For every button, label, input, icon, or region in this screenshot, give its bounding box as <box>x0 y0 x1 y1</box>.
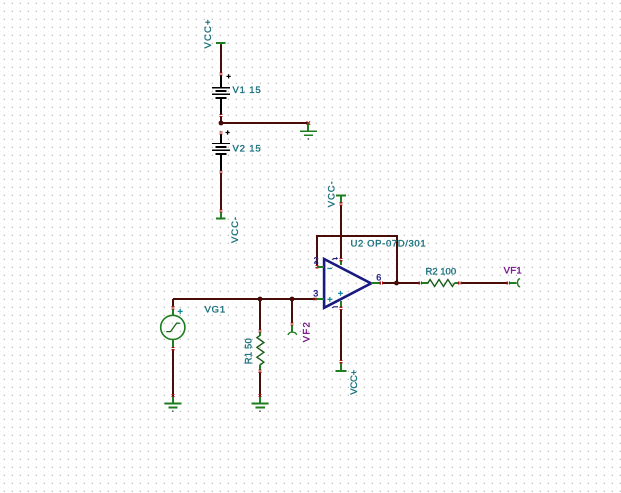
pin 2 stub <box>317 266 324 268</box>
pin ticks <box>315 265 318 268</box>
ground <box>300 124 317 140</box>
svg-text:VCC+: VCC+ <box>203 19 214 49</box>
pin number 2 <box>314 256 319 266</box>
voltage pin VF1 <box>510 279 520 287</box>
svg-text:6: 6 <box>376 273 381 283</box>
label U2 OP-07D/301 <box>351 238 427 249</box>
terminal VCC+ <box>216 42 226 48</box>
pin ticks <box>290 322 293 325</box>
value label V2 15 <box>233 144 262 155</box>
pin ticks <box>458 281 461 284</box>
junction node <box>219 121 224 126</box>
wire <box>397 282 419 284</box>
value label R1 50 <box>244 337 255 364</box>
svg-text:VCC-: VCC- <box>230 216 241 243</box>
battery V1 <box>212 74 231 114</box>
power label VCC- (op-amp top) <box>327 180 338 207</box>
value label VG1 <box>205 305 227 316</box>
pin 6 stub <box>371 282 379 284</box>
pin ticks <box>171 394 174 397</box>
pin ticks <box>419 281 422 284</box>
wire <box>340 310 342 360</box>
value label V1 15 <box>233 85 262 96</box>
net label VF2 <box>302 321 313 342</box>
pin ticks <box>219 131 222 134</box>
power label VCC- <box>230 216 241 243</box>
pin ticks <box>219 114 222 117</box>
terminal VCC- <box>216 213 226 220</box>
pin 4 stub <box>340 301 342 307</box>
pin 7 stub <box>340 261 342 265</box>
ground (R1) <box>252 397 269 412</box>
resistor R1 <box>257 333 264 370</box>
svg-text:U2 OP-07D/301: U2 OP-07D/301 <box>351 238 427 249</box>
pin ticks <box>339 258 342 261</box>
svg-text:VCC+: VCC+ <box>349 369 360 395</box>
battery V2 <box>212 130 230 170</box>
wire <box>462 282 507 284</box>
pin ticks <box>258 394 261 397</box>
marker plus (non-inverting input) <box>327 297 332 302</box>
pin ticks <box>258 369 261 372</box>
svg-text:VG1: VG1 <box>205 305 227 316</box>
pin number 6 <box>376 273 381 283</box>
junction node output <box>394 281 399 286</box>
wire <box>220 45 222 73</box>
power label VCC+ <box>203 19 214 49</box>
pin number 3 <box>313 288 318 298</box>
svg-text:V2 15: V2 15 <box>233 144 262 155</box>
pin ticks <box>258 329 261 332</box>
svg-text:R2 100: R2 100 <box>426 266 458 277</box>
resistor R2 <box>422 280 458 287</box>
pin ticks <box>339 307 342 310</box>
junction node VF2 <box>290 297 295 302</box>
pin ticks <box>219 72 222 75</box>
wire feedback loop <box>317 236 397 283</box>
voltage pin VF2 <box>288 326 297 335</box>
pin tick output <box>380 281 383 284</box>
wire <box>220 174 222 210</box>
svg-text:VCC-: VCC- <box>327 180 338 207</box>
marker arrow (V- supply pin 7) <box>332 257 338 260</box>
pin ticks <box>507 281 510 284</box>
marker minus (inverting input) <box>327 268 332 269</box>
value label R2 100 <box>426 266 458 277</box>
wire <box>259 373 261 400</box>
junction node R1 <box>258 297 263 302</box>
pin ticks <box>219 209 222 212</box>
pin ticks <box>313 297 316 300</box>
source VG1 <box>161 299 185 400</box>
wire <box>340 206 342 258</box>
terminal VCC+ (op-amp bottom) <box>335 363 346 372</box>
ground (VG1) <box>165 397 182 412</box>
pin ticks <box>339 202 342 205</box>
wire <box>221 122 308 124</box>
pin ticks <box>219 170 222 173</box>
pin tick <box>307 121 311 124</box>
power label VCC+ <box>349 369 360 395</box>
marker plus (V+ supply) <box>338 291 343 296</box>
pin 3 stub <box>315 298 324 300</box>
wire <box>220 117 222 123</box>
svg-text:VF2: VF2 <box>302 321 313 342</box>
svg-text:3: 3 <box>313 288 318 298</box>
marker arrow (V+ supply pin 4) <box>332 307 338 308</box>
svg-text:R1 50: R1 50 <box>244 337 255 364</box>
wire input net <box>173 298 315 300</box>
wire <box>259 299 261 329</box>
svg-text:2: 2 <box>314 256 319 266</box>
svg-text:VF1: VF1 <box>504 266 523 277</box>
wire <box>383 282 397 284</box>
op-amp U2 <box>324 259 371 308</box>
terminal VCC- <box>336 195 346 202</box>
wire <box>291 299 293 322</box>
net label VF1 <box>504 266 523 277</box>
svg-text:V1 15: V1 15 <box>233 85 262 96</box>
pin ticks <box>339 360 342 363</box>
